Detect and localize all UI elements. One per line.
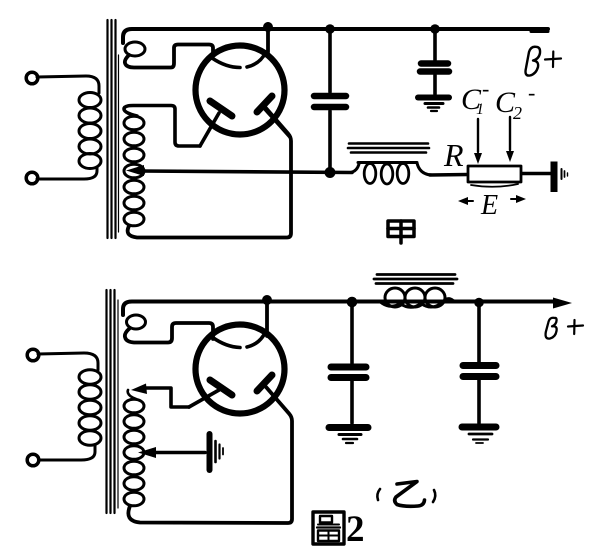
svg-text:2: 2 — [513, 103, 522, 123]
svg-text:1: 1 — [476, 101, 484, 118]
svg-text:E: E — [480, 190, 498, 221]
svg-text:R: R — [443, 137, 464, 173]
svg-text:-: - — [482, 76, 489, 101]
svg-text:-: - — [528, 80, 535, 105]
svg-text:2: 2 — [346, 509, 365, 550]
